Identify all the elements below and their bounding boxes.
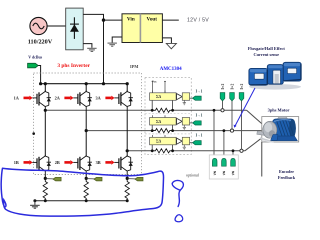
svg-text:Vin: Vin (127, 17, 135, 23)
svg-text:2A: 2A (55, 95, 61, 100)
svg-text:2B: 2B (55, 160, 60, 165)
svg-text:I→1: I→1 (196, 90, 203, 94)
svg-text:Encoder: Encoder (279, 169, 294, 174)
svg-text:110/220V: 110/220V (28, 39, 53, 46)
svg-text:1A: 1A (14, 95, 20, 100)
svg-text:IPM: IPM (130, 64, 138, 69)
svg-text:I≈2: I≈2 (240, 83, 244, 89)
svg-text:Fluxgate/Hall Effect: Fluxgate/Hall Effect (248, 46, 286, 51)
svg-text:V dcBus: V dcBus (28, 56, 42, 60)
svg-text:3A: 3A (95, 95, 101, 100)
svg-text:12V / 5V: 12V / 5V (187, 18, 209, 24)
svg-text:Vcc: Vcc (152, 80, 157, 84)
svg-text:Feedback: Feedback (278, 175, 296, 180)
svg-text:I≈2: I≈2 (230, 83, 234, 89)
svg-text:AMC1304: AMC1304 (160, 67, 182, 72)
svg-text:Current sense: Current sense (254, 52, 280, 57)
svg-text:I→1: I→1 (196, 133, 203, 137)
svg-text:optional: optional (186, 173, 199, 177)
svg-text:3B: 3B (96, 160, 101, 165)
svg-text:1B: 1B (14, 160, 19, 165)
svg-text:Vout: Vout (147, 17, 158, 23)
svg-text:I→1: I→1 (196, 114, 203, 118)
svg-text:3 phs Inverter: 3 phs Inverter (57, 63, 90, 69)
svg-text:I≈2: I≈2 (221, 83, 225, 89)
svg-text:3phs Motor: 3phs Motor (268, 108, 290, 113)
